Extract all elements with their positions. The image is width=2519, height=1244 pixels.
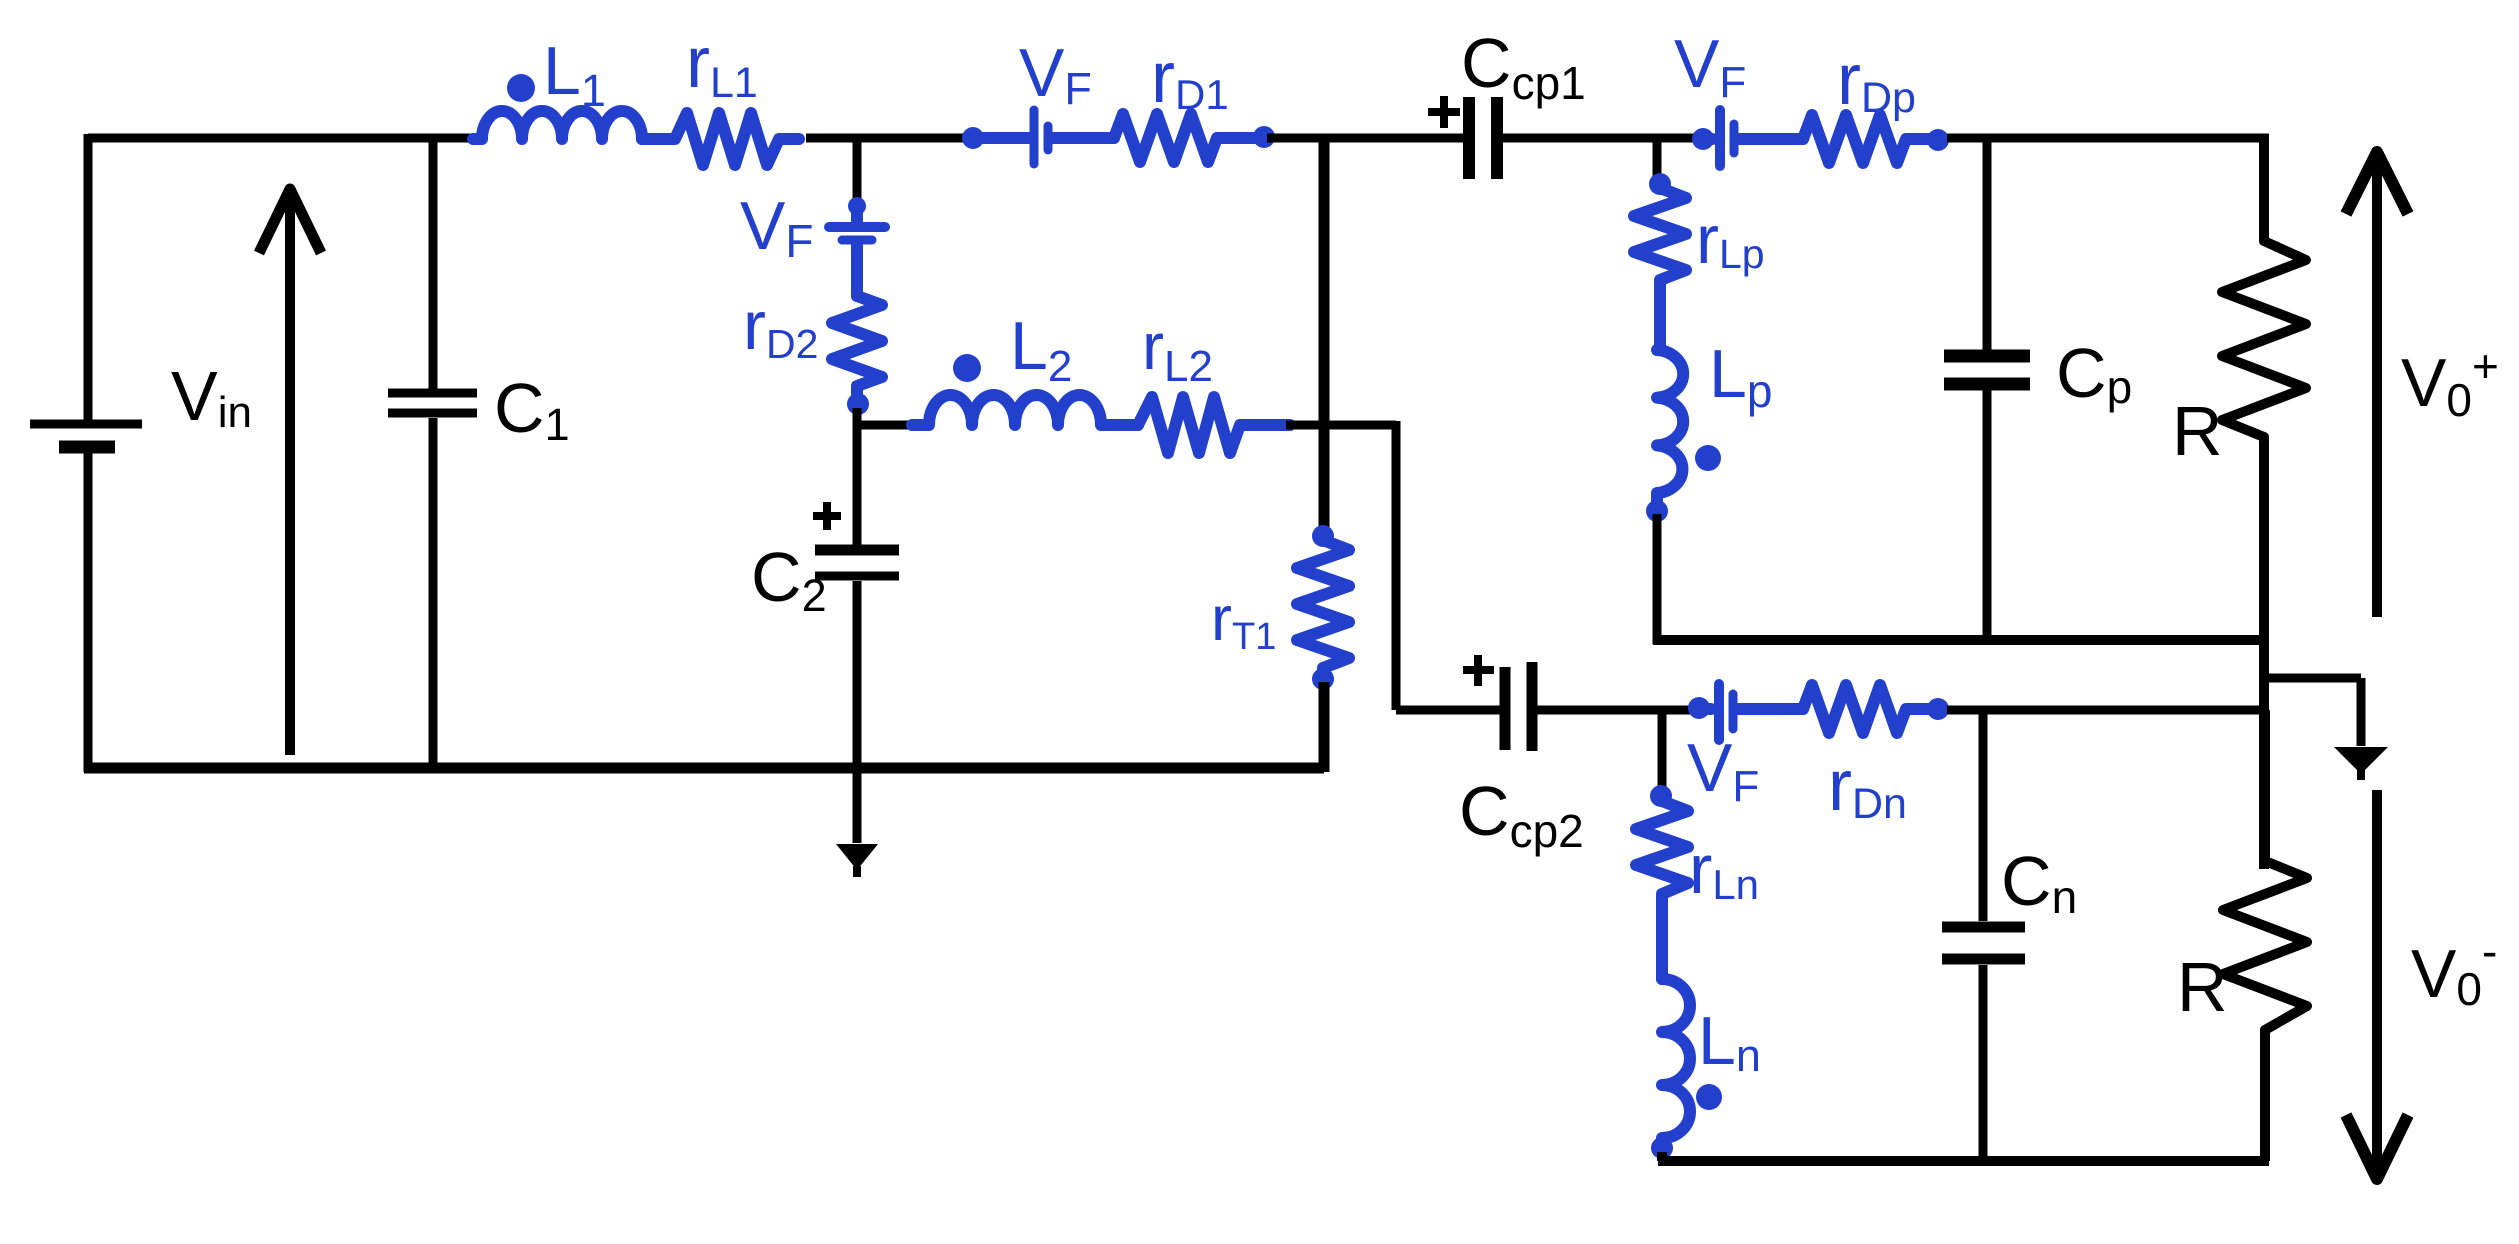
- label Ccp1 plus: [1428, 96, 1460, 128]
- label rL1: [686, 23, 758, 107]
- inductor Lp: [1657, 350, 1683, 508]
- label V0-: [2411, 925, 2497, 1015]
- dot Lp polarity: [1695, 445, 1721, 471]
- wire p-branch bottom: [1653, 514, 1662, 644]
- label C2: [751, 538, 827, 621]
- resistor R bottom: [2223, 710, 2307, 1161]
- capacitor Cn: [1942, 710, 2025, 1161]
- label Ccp2: [1459, 772, 1584, 857]
- label VF n: [1687, 730, 1759, 811]
- label Ccp1: [1461, 24, 1586, 109]
- wire C2 branch: [857, 408, 916, 545]
- resistor rDp: [1803, 115, 1930, 163]
- resistor rDn: [1803, 685, 1930, 733]
- label Ccp2 plus: [1463, 655, 1494, 686]
- wire branch x857 top: [853, 134, 862, 205]
- label R top: [2172, 392, 2223, 470]
- wire node x1324 column: [1286, 138, 1396, 710]
- ground right: [2264, 678, 2388, 780]
- battery Vin: [30, 424, 142, 447]
- label rT1: [1211, 584, 1276, 658]
- resistor rLn: [1636, 785, 1688, 979]
- wire left loop vertical: [84, 134, 93, 772]
- label rD1: [1151, 38, 1229, 118]
- label Cn: [2001, 842, 2077, 923]
- capacitor Cp: [1944, 138, 2030, 645]
- resistor rT1: [1297, 525, 1349, 690]
- node rDn right dot: [1927, 698, 1949, 720]
- ground under C2: [836, 768, 878, 877]
- arrow V0+: [2346, 152, 2408, 617]
- battery VF p: [1703, 110, 1803, 166]
- label R bottom: [2177, 948, 2228, 1026]
- wire rT1 bottom: [1319, 682, 1330, 772]
- wire p-branch top: [1653, 138, 1662, 180]
- wire mid rail y710 left: [1537, 706, 1697, 715]
- wire top rail mid1: [806, 134, 970, 143]
- resistor rLp: [1634, 173, 1686, 350]
- label L2: [1010, 308, 1072, 391]
- wire top rail mid2: [1267, 134, 1464, 143]
- node rDp right dot: [1927, 129, 1949, 151]
- label Cp: [2056, 334, 2132, 413]
- label rDp: [1837, 40, 1916, 122]
- wire mid rail y640: [1653, 635, 2269, 645]
- label rLn: [1689, 830, 1759, 908]
- wire bottom rail: [84, 763, 1324, 774]
- resistor R top: [2222, 138, 2306, 869]
- node battery p left dot: [1692, 128, 1714, 150]
- battery VF n: [1699, 684, 1803, 740]
- resistor rL2: [1138, 397, 1290, 453]
- node Lp bottom dot: [1646, 500, 1668, 522]
- label VF p: [1674, 26, 1746, 107]
- label rDn: [1828, 746, 1907, 828]
- label C1: [494, 369, 570, 450]
- label VF D2: [740, 188, 813, 267]
- wire n-branch top: [1658, 710, 1667, 792]
- wire bottom rail lower block: [1658, 1152, 2269, 1161]
- label Lp: [1709, 336, 1772, 417]
- label VF D1: [1019, 35, 1092, 114]
- inductor L2: [912, 395, 1138, 425]
- capacitor C2: [815, 550, 899, 772]
- node Ln bottom dot: [1651, 1137, 1673, 1159]
- node battery n left dot: [1688, 697, 1710, 719]
- node rD2 bottom dot: [847, 393, 869, 415]
- svg-text:R: R: [2172, 392, 2223, 470]
- dot L1 polarity: [507, 74, 535, 102]
- label rLp: [1696, 201, 1765, 278]
- label Vin: [171, 357, 252, 437]
- resistor rD1: [1114, 114, 1261, 162]
- wire left of Ccp2: [1396, 706, 1500, 715]
- label C2 plus: [813, 502, 841, 530]
- resistor rL1: [642, 113, 799, 165]
- arrow V0-: [2346, 790, 2408, 1179]
- capacitor Ccp2: [1505, 662, 1532, 751]
- inductor Ln: [1662, 979, 1690, 1144]
- node D2 top dot: [848, 197, 866, 215]
- label V0+: [2401, 340, 2499, 426]
- svg-text:R: R: [2177, 948, 2228, 1026]
- label Ln: [1698, 1003, 1761, 1081]
- battery VF D1: [973, 110, 1114, 164]
- node battery D1 left dot: [962, 127, 984, 149]
- resistor rD2: [832, 296, 882, 404]
- dot Ln polarity: [1696, 1084, 1722, 1110]
- label rL2: [1142, 309, 1213, 391]
- wire top rail right: [1947, 134, 2269, 143]
- wire top rail left: [88, 134, 480, 143]
- wire mid rail y710 right: [1947, 706, 2269, 715]
- label rD2: [743, 287, 818, 367]
- arrow Vin: [259, 189, 321, 755]
- capacitor C1: [388, 138, 477, 768]
- inductor L1: [473, 111, 642, 139]
- node rD1 right dot: [1253, 126, 1275, 148]
- capacitor Ccp1: [1469, 97, 1497, 179]
- label L1: [543, 33, 606, 116]
- wire top rail mid3: [1503, 134, 1700, 143]
- dot L2 polarity: [953, 354, 981, 382]
- battery VF D2: [829, 205, 885, 296]
